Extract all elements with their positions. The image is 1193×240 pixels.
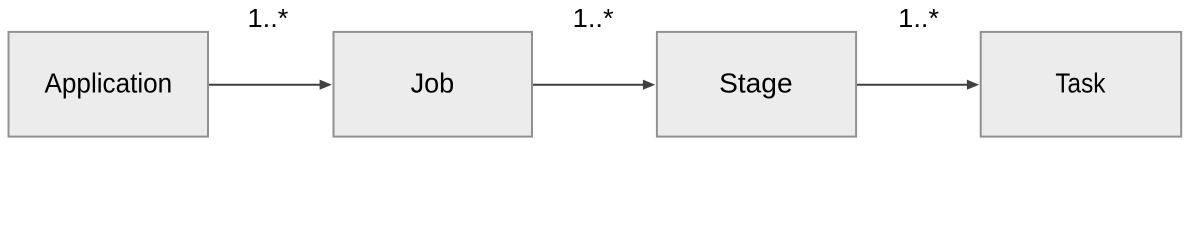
svg-text:1..*: 1..* [573,5,614,33]
svg-text:Task: Task [1055,68,1106,99]
svg-text:1..*: 1..* [248,5,289,33]
svg-text:Job: Job [411,68,455,99]
svg-text:1..*: 1..* [898,5,939,33]
svg-text:Stage: Stage [719,68,793,99]
svg-text:Application: Application [45,68,173,99]
